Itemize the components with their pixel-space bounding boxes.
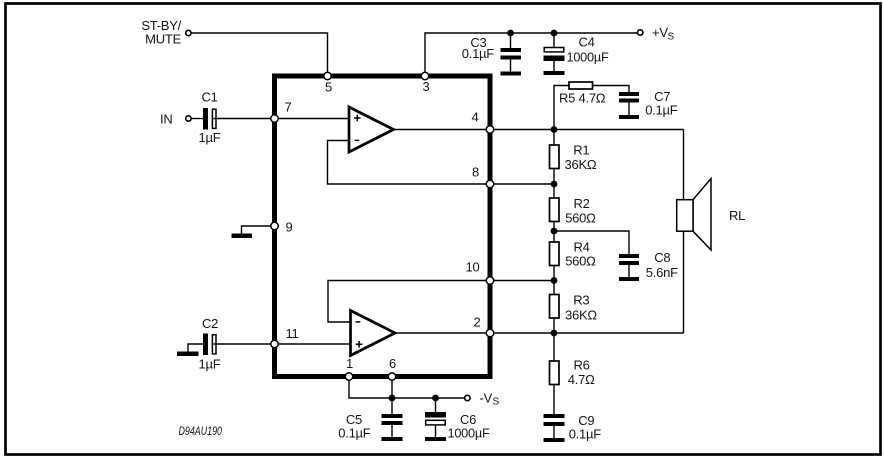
svg-text:S: S <box>493 397 500 408</box>
svg-text:560Ω: 560Ω <box>565 253 596 268</box>
svg-text:S: S <box>668 32 675 43</box>
capacitor C8 <box>619 254 639 265</box>
wire C2 ground lead <box>188 344 203 352</box>
svg-text:3: 3 <box>423 79 430 94</box>
svg-text:-V: -V <box>480 391 493 406</box>
pin 10 <box>486 277 494 285</box>
wire R1-R2 <box>553 169 555 199</box>
ground for C4 <box>544 71 565 75</box>
svg-text:2: 2 <box>474 315 481 330</box>
svg-text:1µF: 1µF <box>199 130 221 145</box>
svg-text:1µF: 1µF <box>199 357 221 372</box>
ground for C5 <box>382 437 403 441</box>
node C3 tap <box>507 30 514 37</box>
resistor R3 <box>550 295 560 319</box>
speaker RL <box>677 179 711 251</box>
ground for C9 <box>544 438 565 442</box>
wire pin 9 ground branch <box>242 226 272 234</box>
svg-text:560Ω: 560Ω <box>565 210 596 225</box>
pin 4 <box>486 126 494 134</box>
wire speaker column lower <box>683 231 685 333</box>
svg-text:10: 10 <box>466 260 480 275</box>
ground for C6 <box>425 437 446 441</box>
svg-text:5: 5 <box>325 80 332 95</box>
svg-text:R6: R6 <box>574 358 590 373</box>
ground for C8 <box>619 277 639 281</box>
svg-text:36KΩ: 36KΩ <box>565 307 597 322</box>
svg-text:6: 6 <box>389 356 396 371</box>
wire R4-R3 <box>553 265 555 295</box>
pin 8 <box>486 180 494 188</box>
wire ST-BY/MUTE to pin 5 <box>192 33 328 74</box>
svg-text:1000µF: 1000µF <box>567 50 609 65</box>
svg-text:0.1µF: 0.1µF <box>338 425 371 440</box>
op-amp U1 <box>349 107 394 152</box>
wire C5 top lead <box>391 398 393 414</box>
svg-text:0.1µF: 0.1µF <box>645 103 678 118</box>
terminal ST-BY/MUTE <box>186 30 191 35</box>
svg-text:RL: RL <box>729 208 745 223</box>
capacitor C2 <box>203 334 216 356</box>
svg-text:C4: C4 <box>579 34 595 49</box>
ground at pin 9 <box>232 234 253 239</box>
resistor R5 <box>569 82 593 89</box>
svg-text:36KΩ: 36KΩ <box>565 157 597 172</box>
IC block TDA <box>275 76 491 377</box>
wire pin 8 line <box>494 183 554 185</box>
capacitor C6 (electrolytic) <box>425 412 446 425</box>
node C4 tap <box>551 30 558 37</box>
wire pin 6 down <box>391 379 393 398</box>
ground at C2 <box>177 352 199 357</box>
resistor R1 <box>550 145 560 169</box>
wire C8 bottom lead <box>628 265 630 278</box>
svg-text:R5 4.7Ω: R5 4.7Ω <box>559 91 606 106</box>
pin circles <box>271 72 494 380</box>
node C5 tap <box>389 395 396 402</box>
terminal circles <box>186 30 643 401</box>
wire op-amp U1 feedback loop to pin 8 <box>328 141 487 185</box>
node R2/R4/C8 <box>551 228 558 235</box>
wire IN to C1 <box>192 118 204 120</box>
wire pin 7 to op-amp U1 + input <box>278 118 349 120</box>
pin 11 <box>271 340 279 348</box>
svg-text:5.6nF: 5.6nF <box>646 265 678 280</box>
wire C4 bottom lead <box>553 61 555 73</box>
node R1/R2/pin8 <box>551 181 558 188</box>
capacitor C7 <box>619 92 639 103</box>
wire C3 top lead <box>510 33 512 49</box>
resistor R4 <box>550 242 560 266</box>
svg-text:C2: C2 <box>202 316 218 331</box>
wire R2-R4 <box>553 222 555 243</box>
wire R6 to C9 <box>553 385 555 415</box>
svg-text:R2: R2 <box>574 196 590 211</box>
svg-text:7: 7 <box>285 100 292 115</box>
svg-text:0.1µF: 0.1µF <box>462 46 495 61</box>
capacitor C4 (electrolytic) <box>544 48 565 62</box>
svg-text:R1: R1 <box>573 143 589 158</box>
wire C9 bottom lead <box>553 426 555 439</box>
pin 7 <box>271 115 279 123</box>
svg-text:MUTE: MUTE <box>145 32 181 47</box>
terminal -Vs <box>465 395 470 400</box>
node R4/R3/pin10 <box>551 277 558 284</box>
svg-text:1000µF: 1000µF <box>448 426 490 441</box>
wire op-amp U2 output to pin 2 <box>395 332 486 334</box>
svg-text:8: 8 <box>472 165 479 180</box>
resistor R6 <box>550 361 560 385</box>
resistor R2 <box>550 198 560 222</box>
wire op-amp U2 feedback loop to pin 10 <box>328 281 486 323</box>
svg-text:+V: +V <box>652 25 668 40</box>
svg-text:R4: R4 <box>574 240 590 255</box>
wire pin 10 line <box>494 280 554 282</box>
wire R3 to pin2 line <box>553 318 555 334</box>
junction dots <box>389 30 558 402</box>
wire op-amp U1 output to pin 4 <box>394 129 487 131</box>
capacitor C3 <box>501 48 522 60</box>
wire pin 2 output line <box>494 332 684 334</box>
wire C6 bottom lead <box>435 426 437 439</box>
ground for C7 <box>619 115 639 119</box>
svg-text:C8: C8 <box>654 250 670 265</box>
pin 1 <box>345 373 353 381</box>
svg-text:D94AU190: D94AU190 <box>179 426 223 438</box>
svg-text:4.7Ω: 4.7Ω <box>568 372 595 387</box>
wire speaker column upper <box>683 130 685 201</box>
wire C4 top lead <box>553 33 555 49</box>
wire R1 top lead <box>553 130 555 146</box>
ground for C3 <box>501 72 522 76</box>
terminal +Vs <box>638 30 643 35</box>
wire C5 bottom lead <box>391 425 393 438</box>
wire pin 4 output line to speaker column <box>494 129 684 131</box>
wire R5 branch up from node at pin4 line <box>554 86 569 130</box>
svg-text:9: 9 <box>286 220 293 235</box>
wire C2 to pin 11 <box>214 343 272 345</box>
wire C3 bottom lead <box>510 59 512 73</box>
svg-text:4: 4 <box>472 110 479 125</box>
svg-text:C1: C1 <box>202 90 218 105</box>
wire C6 top lead <box>435 398 437 412</box>
wire R6 top lead <box>553 333 555 361</box>
capacitor C5 <box>382 414 403 425</box>
capacitor C1 <box>203 108 216 130</box>
pin 5 <box>324 72 332 80</box>
pin 9 <box>271 222 279 230</box>
wire C8 branch <box>554 231 629 254</box>
wire pin 11 to op-amp U2 + input <box>278 343 351 345</box>
terminal IN <box>186 116 191 121</box>
pin 3 <box>421 72 429 80</box>
wire C1 to pin 7 <box>214 118 272 120</box>
node pin4/R5/R1 <box>551 126 558 133</box>
svg-text:IN: IN <box>160 112 173 127</box>
wire pin 3 to +Vs rail <box>425 33 637 74</box>
svg-text:R3: R3 <box>573 292 589 307</box>
op-amp U2 <box>351 311 396 356</box>
wire pin 1 down to -Vs rail <box>349 379 464 398</box>
capacitor C9 <box>544 414 565 426</box>
pin 6 <box>388 373 396 381</box>
svg-text:C9: C9 <box>578 413 594 428</box>
svg-text:11: 11 <box>286 326 299 341</box>
svg-text:0.1µF: 0.1µF <box>569 427 602 442</box>
node R3/R6/pin2 <box>551 330 558 337</box>
svg-text:1: 1 <box>346 356 353 371</box>
node C6 tap <box>432 395 439 402</box>
wire R5 to C7 <box>593 86 630 93</box>
pin 2 <box>486 329 494 337</box>
wire C7 bottom lead <box>628 102 630 116</box>
